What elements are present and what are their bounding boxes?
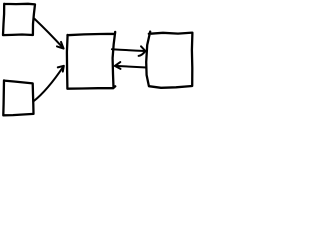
arrowhead into center box left side (lower) (58, 66, 64, 72)
arrowhead into center box right side (115, 62, 121, 69)
box center (67, 32, 115, 89)
box bottom-left (3, 80, 33, 115)
wire arrow from bottom-left box to center box (33, 66, 63, 101)
wire arrow from center box to right box (112, 49, 145, 51)
box right (146, 32, 192, 88)
wire arrow from top-left box to center box (34, 19, 63, 49)
wire arrow from right box to center box (115, 66, 146, 68)
arrowhead into center box left side (upper) (57, 42, 64, 49)
arrowhead into right box left side (139, 46, 146, 56)
box top-left (3, 4, 35, 35)
